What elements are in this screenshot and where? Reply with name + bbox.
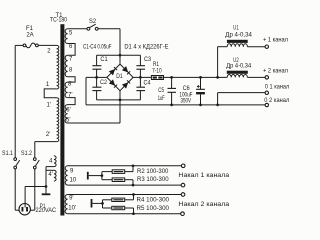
svg-text:D1: D1 bbox=[116, 74, 123, 80]
svg-text:350V: 350V bbox=[181, 99, 192, 105]
svg-text:10': 10' bbox=[68, 206, 76, 212]
svg-text:4: 4 bbox=[49, 158, 53, 164]
svg-text:1': 1' bbox=[47, 103, 51, 109]
svg-text:U1: U1 bbox=[233, 26, 239, 32]
svg-text:2': 2' bbox=[46, 132, 50, 138]
svg-text:R5 100-300: R5 100-300 bbox=[137, 206, 170, 212]
svg-text:1: 1 bbox=[46, 82, 50, 88]
svg-text:R4 100-300: R4 100-300 bbox=[137, 198, 170, 204]
svg-text:R2 100-300: R2 100-300 bbox=[137, 169, 169, 175]
svg-text:C4: C4 bbox=[144, 81, 152, 87]
svg-text:Др 4-0,34: Др 4-0,34 bbox=[226, 63, 252, 69]
svg-text:10: 10 bbox=[70, 177, 77, 183]
svg-text:R1: R1 bbox=[153, 62, 160, 68]
svg-text:5: 5 bbox=[69, 31, 73, 37]
svg-text:7-10: 7-10 bbox=[152, 68, 162, 74]
svg-text:7': 7' bbox=[68, 93, 72, 99]
svg-text:9: 9 bbox=[70, 169, 74, 175]
svg-text:220VAC: 220VAC bbox=[36, 208, 57, 214]
svg-text:S2: S2 bbox=[89, 19, 97, 25]
svg-text:C5: C5 bbox=[158, 88, 164, 94]
svg-text:8: 8 bbox=[69, 68, 73, 74]
svg-text:0 1 канал: 0 1 канал bbox=[265, 85, 290, 91]
svg-text:5': 5' bbox=[66, 118, 70, 124]
svg-text:+ 1 канал: + 1 канал bbox=[263, 37, 288, 43]
svg-text:0 2 канал: 0 2 канал bbox=[264, 98, 289, 104]
svg-text:2: 2 bbox=[47, 48, 51, 54]
svg-text:Накал 2 канала: Накал 2 канала bbox=[178, 201, 229, 208]
svg-text:C1-C4 0.05uF: C1-C4 0.05uF bbox=[83, 45, 112, 51]
svg-text:2A: 2A bbox=[26, 32, 33, 38]
svg-text:S1.2: S1.2 bbox=[21, 151, 33, 157]
svg-text:4': 4' bbox=[48, 172, 52, 178]
svg-text:D1 4 x КД226Г-Е: D1 4 x КД226Г-Е bbox=[124, 45, 168, 51]
svg-text:8': 8' bbox=[68, 82, 72, 88]
svg-text:R3 100-300: R3 100-300 bbox=[137, 177, 169, 183]
svg-text:100uF: 100uF bbox=[179, 92, 192, 98]
svg-text:9': 9' bbox=[69, 195, 73, 201]
svg-text:7: 7 bbox=[69, 57, 73, 63]
svg-text:C1: C1 bbox=[100, 57, 108, 63]
svg-text:C2: C2 bbox=[100, 80, 108, 86]
svg-text:TC-180: TC-180 bbox=[50, 18, 68, 24]
svg-text:6: 6 bbox=[69, 44, 73, 50]
svg-text:C6: C6 bbox=[183, 86, 191, 92]
svg-text:S1.1: S1.1 bbox=[2, 151, 14, 157]
svg-text:F1: F1 bbox=[26, 26, 34, 32]
svg-text:6': 6' bbox=[66, 108, 70, 114]
svg-text:C3: C3 bbox=[144, 57, 152, 63]
svg-text:Накал 1 канала: Накал 1 канала bbox=[178, 172, 229, 179]
svg-text:1uF: 1uF bbox=[158, 96, 165, 102]
svg-text:+ 2 канал: + 2 канал bbox=[263, 68, 288, 74]
svg-text:Др 4-0,34: Др 4-0,34 bbox=[225, 32, 252, 38]
